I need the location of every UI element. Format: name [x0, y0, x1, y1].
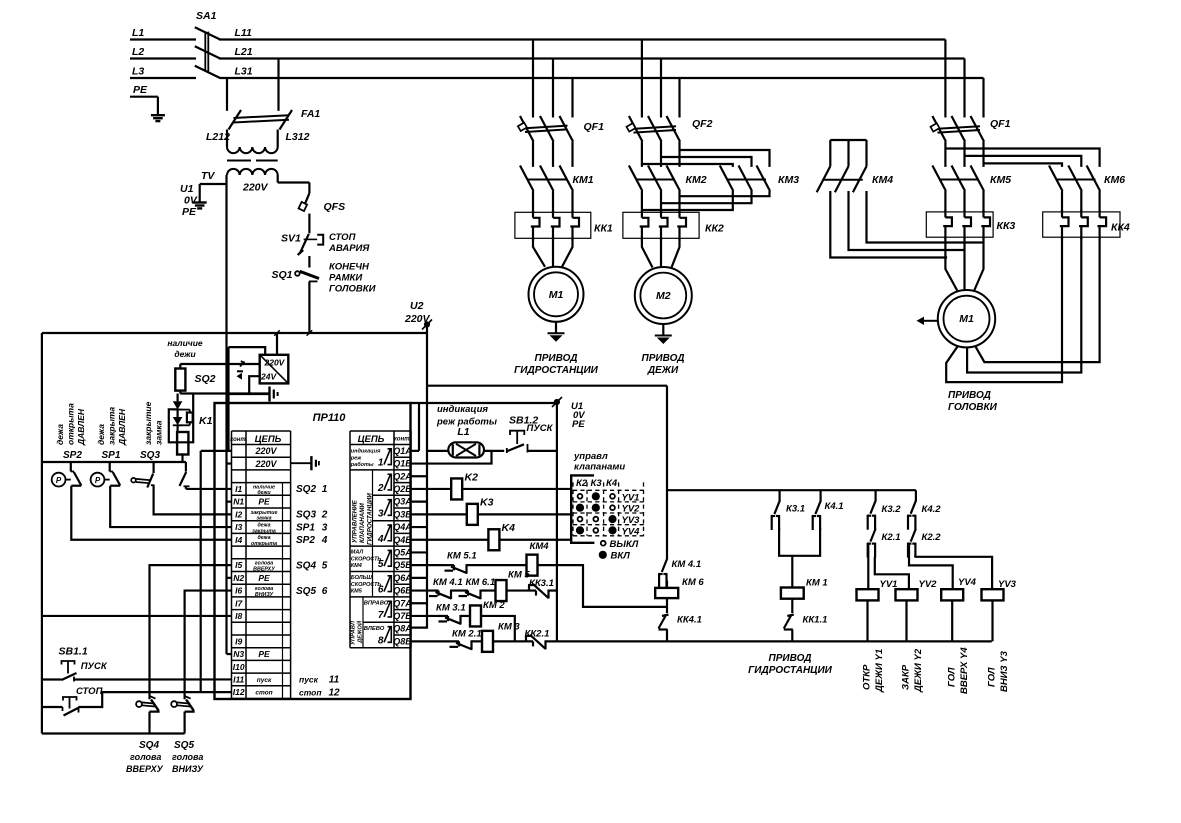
label GOL VNIZ Y3: [987, 650, 1011, 692]
wire KM5.1 to KM4 coil: [467, 564, 527, 566]
pressure switch SP1: [91, 462, 121, 487]
svg-text:N1: N1: [233, 497, 244, 507]
valve coil YV1: [857, 589, 879, 600]
circuit breaker QF1 bar: [525, 126, 568, 132]
thermal relay KK1 label: [594, 223, 613, 235]
svg-text:наличие: наличие: [167, 338, 203, 348]
svg-text:220V: 220V: [242, 182, 269, 194]
svg-text:I2: I2: [235, 509, 242, 519]
contact KK1.1 label: [803, 615, 828, 626]
wire Q2B row: [411, 488, 572, 490]
svg-text:КМ4: КМ4: [351, 563, 362, 569]
wire PSU minus 24V: [249, 376, 260, 394]
contact K4.1 label: [825, 501, 844, 512]
wire K4.2 tap to YV4: [909, 543, 953, 590]
thermal relay KK3 label: [997, 220, 1016, 232]
svg-text:закрытие: закрытие: [143, 401, 153, 445]
PR110 right terminal table grid: [350, 431, 411, 648]
ground motor M2: [655, 324, 672, 344]
contact K3.1 label: [786, 504, 805, 515]
wire Q1A stub: [411, 403, 420, 451]
svg-text:КК1: КК1: [594, 223, 613, 235]
contactor coil KM3 label: [498, 622, 520, 633]
wire SQ1 to control box border: [308, 281, 310, 333]
control box left edge wire: [41, 333, 43, 734]
svg-text:стоп: стоп: [299, 687, 322, 697]
svg-text:КМ 2.1: КМ 2.1: [452, 629, 482, 640]
svg-text:I9: I9: [235, 636, 242, 646]
transformer TV secondary winding: [227, 169, 278, 175]
svg-text:SQ4: SQ4: [296, 560, 316, 571]
wire PE rail tap N3: [227, 653, 232, 655]
svg-text:SQ5: SQ5: [174, 740, 194, 751]
svg-text:КМ4: КМ4: [872, 174, 893, 186]
svg-text:YV3: YV3: [622, 515, 641, 526]
svg-text:5: 5: [322, 560, 328, 571]
svg-text:КК4: КК4: [1111, 222, 1130, 234]
svg-text:3: 3: [322, 522, 328, 533]
contactor KM3 label: [778, 174, 799, 186]
svg-text:ГОЛ: ГОЛ: [987, 667, 998, 687]
power supply 220V label: [264, 358, 286, 368]
svg-text:КМ 6: КМ 6: [682, 577, 704, 588]
node U1 label (transformer): [180, 183, 194, 195]
svg-text:ВВЕРХУ: ВВЕРХУ: [126, 764, 164, 774]
svg-text:Q8B: Q8B: [393, 636, 412, 646]
wire L2: [130, 57, 196, 59]
thermal relay KK4 label: [1111, 222, 1130, 234]
node PE label (transformer): [182, 206, 197, 218]
svg-text:QF1: QF1: [584, 121, 605, 133]
svg-text:L31: L31: [235, 66, 253, 78]
wire Q1B return: [411, 451, 492, 464]
svg-text:РАМКИ: РАМКИ: [329, 273, 362, 284]
contact KM3.1: [438, 615, 461, 625]
PR110 output contact symbols: [384, 448, 391, 642]
svg-text:КОНЕЧН: КОНЕЧН: [329, 262, 370, 273]
svg-text:SQ1: SQ1: [272, 269, 293, 281]
svg-text:ВЛЕВО: ВЛЕВО: [364, 626, 385, 632]
wire Q4B row: [411, 539, 572, 541]
svg-text:К2.1: К2.1: [882, 532, 901, 543]
wire K2.2 to YV3: [915, 557, 992, 589]
svg-text:U2: U2: [410, 300, 424, 312]
thermal relay KK1 elements: [531, 210, 579, 240]
contact K4.2: [907, 490, 916, 530]
valve coil YV2 label: [919, 579, 938, 590]
node PE label: [133, 84, 148, 96]
thermal relay KK4 elements: [1060, 210, 1106, 239]
wire right section feed: [666, 386, 668, 560]
svg-text:УПРАВЛЕНИЕ: УПРАВЛЕНИЕ: [352, 499, 359, 543]
wire Q3B row: [411, 513, 572, 515]
PR110 right header: [358, 434, 412, 445]
motor M1 hydro: [529, 267, 584, 322]
contactor coil KM5: [496, 580, 507, 601]
label STOP SB: [76, 686, 103, 697]
svg-text:I8: I8: [235, 611, 242, 621]
wire L21 drop to QF2 pole 2: [660, 59, 662, 118]
junction tick PSU feed: [274, 330, 280, 336]
wire Q5B to KM5.1: [411, 564, 445, 566]
node L212 label: [206, 131, 230, 143]
contactor KM6 label: [1104, 174, 1125, 186]
contactor KM4 blades: [817, 140, 867, 192]
contact K2.1 label: [882, 532, 901, 543]
svg-text:ВПРАВО: ВПРАВО: [364, 601, 389, 607]
wire KK4 out3 to motor: [975, 237, 1099, 362]
svg-text:ЗАКР: ЗАКР: [901, 664, 912, 690]
svg-text:Q7A: Q7A: [393, 598, 412, 608]
svg-text:ВЫКЛ: ВЫКЛ: [610, 539, 639, 550]
label privod gidro right: [748, 653, 832, 676]
wire KK4 out1 to motor: [946, 237, 1062, 382]
wire SQ5 to I6: [185, 591, 232, 700]
svg-text:6: 6: [322, 586, 328, 597]
wire SV1 to SQ1: [308, 256, 310, 268]
svg-text:Q8A: Q8A: [393, 624, 412, 634]
svg-text:конт.: конт.: [394, 437, 412, 443]
contact KK4.1 label: [677, 615, 702, 626]
svg-text:L3: L3: [132, 66, 144, 78]
wire L31 drop to right QF1 pole3: [982, 78, 984, 118]
wires QnA stubs: [411, 476, 428, 603]
svg-text:дежи: дежи: [257, 490, 271, 496]
contactor coil KM4 label: [530, 541, 550, 552]
PR110 output terminal names: [393, 446, 412, 646]
contact KM5.1: [444, 564, 467, 574]
svg-text:дежи: дежи: [174, 349, 196, 359]
circuit breaker QF1 label: [584, 121, 605, 133]
node 220V secondary label: [242, 182, 269, 194]
PR110 PE cell texts: [258, 497, 270, 659]
label golova 1: [130, 752, 161, 762]
svg-text:I3: I3: [235, 522, 242, 532]
transformer TV label: [201, 170, 215, 182]
wire KM3.1 to KM2 coil: [461, 615, 471, 617]
wire K3.2 tap to YV1: [867, 543, 869, 590]
fuse-switch QFS: [299, 193, 310, 211]
svg-text:YV1: YV1: [622, 492, 640, 503]
node U2 marker: [422, 320, 432, 330]
wire bus to lamp: [427, 450, 448, 452]
pushbutton SB1.2 label: [509, 415, 554, 435]
relay coil K4 label: [502, 522, 516, 534]
svg-text:U1: U1: [180, 183, 194, 195]
relay coil K3: [467, 504, 478, 525]
wire 220V right bus: [667, 489, 916, 491]
lamp L1: [448, 442, 484, 457]
svg-text:КК2: КК2: [705, 223, 724, 235]
fuse-switch QFS label: [324, 201, 346, 213]
svg-text:YV4: YV4: [622, 526, 641, 537]
wire KM6.1 to KM5 coil: [481, 589, 496, 591]
limit switch SQ3: [131, 462, 154, 488]
svg-text:Q1B: Q1B: [393, 459, 412, 469]
svg-text:закрыта: закрыта: [107, 407, 117, 445]
svg-text:I11: I11: [233, 674, 244, 684]
svg-text:L312: L312: [286, 131, 310, 143]
svg-text:2: 2: [321, 510, 328, 521]
valve coil YV3: [982, 589, 1004, 600]
svg-text:дежа: дежа: [55, 424, 65, 445]
svg-text:К2.2: К2.2: [922, 532, 942, 543]
contactor coil KM6 label: [682, 577, 704, 588]
wire SP2 to I4: [71, 486, 231, 540]
limit switch SQ5: [171, 696, 193, 733]
svg-text:ГИДРОСТАНЦИИ: ГИДРОСТАНЦИИ: [367, 493, 374, 545]
wire KM4 pole1 out: [830, 191, 947, 258]
svg-text:Q4B: Q4B: [393, 535, 412, 545]
contact KM4.1 label: [433, 577, 463, 588]
svg-text:стоп: стоп: [255, 690, 272, 697]
svg-text:Q3A: Q3A: [393, 497, 412, 507]
svg-text:замка: замка: [154, 420, 164, 445]
svg-text:11: 11: [329, 675, 340, 686]
PR110 descriptor bolsh skorost: [351, 575, 382, 595]
wire SB1.2 to 0V bus: [528, 450, 557, 452]
contactor KM6 bar: [1057, 179, 1096, 181]
svg-text:I6: I6: [235, 586, 242, 596]
wire KK3.1 to 0V bus: [549, 589, 557, 591]
wire left edge to I8: [42, 615, 232, 617]
svg-text:220V: 220V: [254, 446, 277, 456]
label STOP AVARIA: [328, 232, 370, 254]
ground PE transformer: [193, 184, 207, 208]
switch SA1 link bar: [205, 32, 208, 72]
mark minus: [237, 371, 244, 379]
diode VD1: [173, 401, 183, 409]
svg-text:УПРАВЛ: УПРАВЛ: [351, 620, 357, 645]
contactor KM1 blades: [520, 166, 573, 213]
svg-text:К4: К4: [606, 478, 618, 489]
svg-text:МАЛ: МАЛ: [351, 550, 364, 556]
wire diode branch top: [177, 394, 179, 402]
circuit breaker QF2 label: [692, 118, 713, 130]
label dezha zakryta DAVLEN: [96, 407, 127, 446]
svg-text:Q6A: Q6A: [393, 573, 412, 583]
node U1 marker: [552, 397, 562, 407]
contact K2.2 label: [922, 532, 942, 543]
svg-text:К2: К2: [576, 478, 588, 489]
svg-text:3: 3: [378, 508, 384, 519]
svg-text:ПУСК: ПУСК: [81, 661, 108, 672]
limit switch SQ4: [136, 696, 158, 733]
transformer TV primary winding: [227, 147, 278, 153]
wire join to KM1 coil: [791, 556, 793, 588]
wire U2 bus vertical: [426, 327, 428, 629]
svg-text:индикация: индикация: [437, 404, 488, 415]
svg-text:Q5A: Q5A: [393, 547, 412, 557]
wire QFS to SV1: [308, 214, 310, 234]
svg-text:I12: I12: [233, 687, 245, 697]
wire QF1R ph3 to KM6 pole1: [984, 163, 1063, 167]
svg-text:L2: L2: [132, 46, 144, 58]
thermal relay KK3 elements: [943, 210, 990, 239]
svg-text:7: 7: [378, 610, 384, 621]
node 0V label (transformer): [184, 195, 198, 207]
wire 220V row1 feed: [201, 450, 232, 452]
svg-text:K4: K4: [502, 522, 516, 534]
svg-text:SV1: SV1: [281, 233, 301, 245]
legend VKL: [599, 551, 630, 562]
svg-text:ГОЛ: ГОЛ: [947, 667, 958, 687]
matrix dashed grid: [573, 482, 644, 535]
wire bottom rail: [42, 732, 185, 734]
wire Q8B to KM2.1: [411, 640, 450, 642]
PR110 descriptor indikacia: [350, 449, 381, 469]
wire KM3 coil to KK2.1: [493, 640, 524, 642]
svg-text:голова: голова: [172, 752, 203, 762]
thermal relay KK2 box: [623, 212, 699, 238]
svg-text:YV1: YV1: [880, 579, 898, 590]
svg-text:КМ4: КМ4: [530, 541, 550, 552]
svg-text:L11: L11: [235, 27, 252, 39]
wire sensors bus: [42, 461, 186, 463]
wire K3.1 K4.1 join: [779, 528, 820, 556]
wire secondary left to PE ground: [200, 183, 227, 185]
svg-text:пуск: пуск: [257, 677, 272, 684]
svg-text:ЦЕПЬ: ЦЕПЬ: [255, 434, 282, 445]
wire KM3 pole3 return: [680, 191, 770, 196]
contactor KM4 bar: [822, 179, 862, 181]
emergency stop SV1: [298, 234, 324, 255]
wire FA1 to TV primary right: [277, 130, 279, 148]
wire QF2 ph2 to KM3 pole2: [661, 157, 752, 167]
wire Q6B to KM4.1: [411, 589, 429, 591]
svg-text:М1: М1: [959, 313, 974, 325]
wire FA1 to TV primary left: [226, 130, 228, 148]
label SP1: [102, 450, 121, 461]
label dezha otkryta DAVLEN: [55, 403, 86, 446]
svg-text:L1: L1: [132, 27, 144, 39]
wire aux vertical to 220V row: [227, 394, 229, 451]
contact KM3.1 label: [436, 603, 466, 614]
contactor KM6 blades: [1049, 166, 1100, 213]
contactor KM3 bar: [728, 179, 767, 181]
wire U1 0V bus: [556, 403, 558, 641]
wire L1: [130, 38, 196, 40]
wire L31 drop to QF2 pole 3: [678, 78, 680, 118]
svg-text:КМ 5: КМ 5: [508, 570, 530, 581]
svg-text:I10: I10: [233, 662, 245, 672]
svg-text:КЛАПАНАМИ: КЛАПАНАМИ: [359, 503, 366, 543]
svg-text:SQ4: SQ4: [139, 740, 159, 751]
svg-text:SQ2: SQ2: [296, 484, 316, 495]
label SQ3: [140, 450, 160, 461]
contactor coil KM3: [482, 631, 493, 652]
svg-text:YV3: YV3: [998, 579, 1017, 590]
valve coil YV4: [941, 589, 963, 600]
node L3 label: [132, 66, 144, 78]
svg-text:YV4: YV4: [958, 577, 977, 588]
svg-text:реж: реж: [350, 455, 362, 461]
wire lamp to SB1.2: [484, 450, 504, 452]
node U1 0V PE labels: [571, 401, 585, 430]
svg-text:РЕ: РЕ: [258, 497, 270, 507]
valve coil YV4 label: [958, 577, 977, 588]
svg-text:Q7B: Q7B: [393, 611, 412, 621]
wire aux vertical: [227, 347, 229, 394]
svg-text:SQ5: SQ5: [296, 586, 316, 597]
proximity sensor lock: [177, 432, 188, 455]
label indikacia rezh raboty: [436, 404, 497, 428]
wire minus rail: [227, 393, 270, 395]
limit switch SQ1 label: [272, 269, 293, 281]
wire QF1R ph1 to KM6 pole3: [945, 149, 1099, 167]
contact KM4.1: [429, 590, 452, 600]
contact K4.2 label: [922, 504, 942, 515]
label upravl klapanami: [573, 451, 625, 473]
wire SQ2 top: [179, 364, 181, 369]
power supply 24V label: [260, 372, 277, 382]
svg-text:SQ3: SQ3: [296, 510, 316, 521]
contact KM5.1 label: [447, 551, 477, 562]
svg-text:I1: I1: [235, 484, 242, 494]
label KONECHN RAMKI GOLOVKI: [329, 262, 376, 295]
svg-text:Q2B: Q2B: [393, 484, 412, 494]
wire L11 drop to right QF1 pole1: [944, 40, 946, 118]
svg-text:2: 2: [377, 483, 384, 494]
svg-text:ДАВЛЕН: ДАВЛЕН: [76, 408, 86, 446]
svg-text:Р: Р: [56, 476, 62, 485]
pressure switch SP2: [52, 462, 82, 487]
svg-text:4: 4: [321, 535, 328, 546]
svg-text:КК4.1: КК4.1: [677, 615, 702, 626]
svg-text:работы: работы: [350, 461, 374, 468]
contactor coil KM6: [655, 588, 678, 598]
svg-text:ГОЛОВКИ: ГОЛОВКИ: [948, 402, 998, 413]
svg-text:Q5B: Q5B: [393, 560, 412, 570]
svg-text:РЕ: РЕ: [572, 419, 585, 430]
control box top border: [42, 332, 427, 334]
PR110 input descriptors: [251, 484, 278, 696]
motor M2: [635, 267, 692, 324]
svg-text:220V: 220V: [404, 313, 431, 325]
circuit breaker QF2 latch square: [626, 123, 635, 131]
svg-text:КМ1: КМ1: [573, 174, 594, 186]
svg-text:Р: Р: [95, 476, 101, 485]
matrix header K4: [606, 478, 618, 489]
proximity sensor SQ2: [175, 369, 185, 391]
svg-text:голова: голова: [130, 752, 161, 762]
svg-text:КК3.1: КК3.1: [529, 578, 554, 589]
emergency stop SV1 label: [281, 233, 301, 245]
svg-text:КМ 3.1: КМ 3.1: [436, 603, 466, 614]
wire SP1 to I3: [110, 486, 231, 527]
svg-text:ДЕЖОЙ: ДЕЖОЙ: [356, 620, 364, 644]
svg-text:СТОП: СТОП: [329, 232, 356, 243]
contactor KM2 bar: [637, 179, 676, 181]
power supply box: [260, 355, 289, 384]
wire SQ4 to I5: [150, 565, 232, 699]
svg-text:ПРИВОД: ПРИВОД: [769, 653, 812, 664]
wire 220V row2 stub: [227, 462, 232, 464]
svg-text:закрыта: закрыта: [252, 528, 276, 534]
PR110 descriptor vpravo: [364, 601, 389, 607]
wire YV1 to 0V bus: [866, 600, 868, 641]
svg-text:пуск: пуск: [299, 675, 319, 685]
matrix header K2: [576, 478, 588, 489]
wire YV2 to 0V bus: [905, 600, 907, 641]
contact KM6.1 label: [466, 577, 496, 588]
wire L13 drop to QF1 pole 3: [571, 78, 573, 118]
svg-text:ВКЛ: ВКЛ: [611, 551, 631, 562]
circuit breaker QF1 blades: [520, 116, 573, 167]
svg-text:КМ6: КМ6: [1104, 174, 1125, 186]
svg-text:СКОРОСТЬ: СКОРОСТЬ: [351, 582, 382, 588]
label nalichie dezhi: [167, 338, 203, 359]
